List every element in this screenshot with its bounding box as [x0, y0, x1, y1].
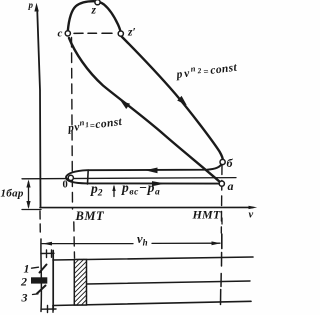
expansion curve z' to b — [121, 36, 223, 161]
v axis arrowhead — [249, 206, 258, 209]
point circle b — [220, 159, 225, 164]
NMT dashed line — [220, 165, 223, 233]
expansion curve arrow — [177, 96, 187, 105]
svg-text:c: c — [58, 27, 63, 39]
point circle z — [95, 0, 100, 5]
svg-text:pvn2=const: pvn2=const — [174, 58, 238, 81]
callout tick 3 on pipe — [37, 286, 46, 294]
indicator valve black bar — [31, 277, 47, 283]
NMT line ticks through cylinder — [221, 253, 222, 305]
piston rod — [87, 281, 251, 284]
1 bar lower tick — [22, 209, 41, 211]
vh dimension right end bar — [221, 234, 223, 249]
svg-text:pвс−pa: pвс−pa — [121, 180, 160, 197]
svg-text:0: 0 — [63, 180, 68, 191]
svg-text:p: p — [28, 0, 34, 10]
svg-text:3: 3 — [21, 291, 28, 305]
BMT dashed line — [72, 38, 73, 210]
svg-text:б: б — [227, 156, 234, 170]
vh dimension line — [42, 242, 220, 244]
small arrow pointing up at intake line — [113, 187, 115, 197]
p axis arrowhead — [34, 3, 38, 12]
vh right arrowhead — [212, 241, 221, 245]
piston — [74, 259, 86, 305]
pipe bottom connector — [42, 308, 57, 310]
p axis dashed extension below v axis — [39, 211, 41, 234]
indicator pipe vertical line — [40, 239, 43, 312]
point circle a — [219, 181, 224, 186]
cylinder top wall — [53, 257, 253, 260]
point circle z' — [118, 31, 123, 36]
atmospheric pressure line — [22, 178, 236, 179]
cylinder head wall — [52, 251, 54, 311]
exhaust left arrow — [145, 168, 158, 174]
compression curve a to c — [69, 38, 222, 183]
combustion dome curve c-z-z' — [68, 1, 121, 33]
svg-text:a: a — [228, 179, 234, 193]
compression curve arrow — [121, 101, 131, 109]
point circle 0 — [68, 175, 73, 180]
svg-text:v: v — [249, 209, 254, 220]
p2 tick between exhaust line and atm line — [87, 170, 90, 184]
svg-text:2: 2 — [20, 274, 27, 288]
svg-text:1бар: 1бар — [1, 188, 24, 200]
svg-text:vh: vh — [137, 232, 148, 248]
svg-text:НМТ: НМТ — [192, 207, 221, 221]
1 bar dimension arrow — [28, 182, 30, 207]
svg-text:z: z — [91, 5, 97, 17]
p axis — [37, 12, 40, 208]
dashed line c to z' — [74, 32, 112, 34]
point circle c — [65, 31, 70, 36]
svg-text:ВМТ: ВМТ — [75, 209, 105, 223]
callout tick 1 on pipe — [40, 265, 47, 273]
v axis — [40, 206, 253, 208]
cylinder bottom wall — [53, 301, 251, 305]
exhaust/intake pumping loop — [66, 163, 222, 184]
vh left arrowhead — [43, 242, 53, 246]
intake right arrow — [152, 181, 166, 186]
pipe top connector — [41, 252, 54, 254]
svg-text:pvn1=const: pvn1=const — [66, 112, 123, 134]
svg-text:z′: z′ — [127, 27, 136, 39]
